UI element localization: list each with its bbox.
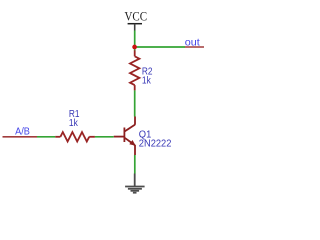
svg-text:A/B: A/B	[15, 127, 30, 138]
junction node out	[132, 45, 137, 50]
resistor R2	[130, 50, 139, 90]
wire node to out port	[135, 46, 185, 48]
ground	[125, 174, 145, 193]
svg-text:1k: 1k	[69, 118, 79, 129]
wire R2 to Q1 collector	[134, 90, 136, 116]
resistor R1	[55, 132, 95, 141]
transistor Q1	[114, 117, 135, 156]
wire Q1 emitter to ground	[134, 155, 136, 174]
svg-text:2N2222: 2N2222	[139, 138, 172, 149]
svg-text:out: out	[185, 38, 200, 49]
svg-text:1k: 1k	[142, 76, 152, 87]
wire R1 to Q1 base	[95, 136, 114, 138]
port A/B	[3, 127, 38, 138]
emitter arrow (Q1)	[129, 140, 135, 146]
power VCC	[125, 8, 148, 30]
wire A/B to R1	[37, 136, 55, 138]
port out	[185, 38, 204, 49]
wire VCC to node	[134, 31, 136, 51]
svg-text:VCC: VCC	[125, 8, 148, 23]
